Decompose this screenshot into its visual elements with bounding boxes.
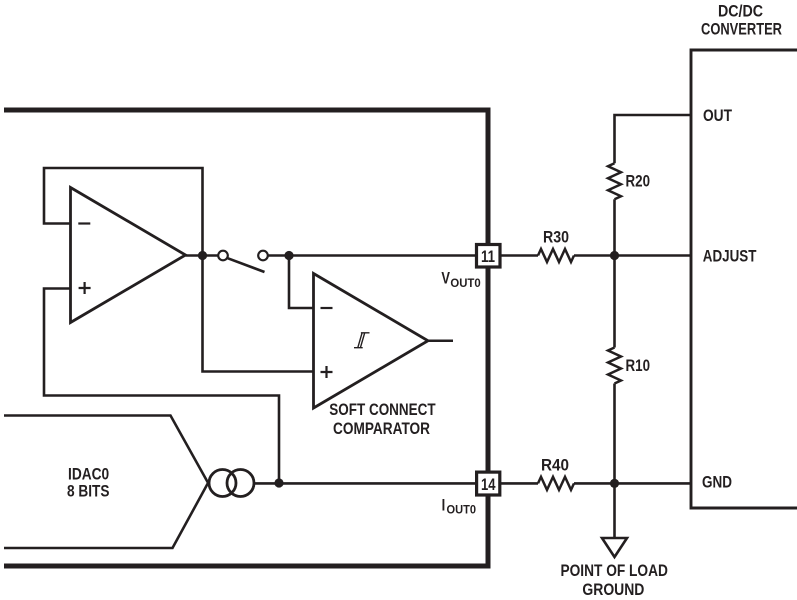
resistor R40 xyxy=(538,477,574,490)
svg-text:R30: R30 xyxy=(543,228,569,247)
label SOFT CONNECT COMPARATOR xyxy=(329,400,436,438)
switch SW (soft connect switch) xyxy=(218,251,268,272)
svg-text:DC/DC: DC/DC xyxy=(718,2,763,21)
svg-text:IDAC0: IDAC0 xyxy=(68,465,109,484)
DC/DC converter box xyxy=(691,50,797,508)
svg-text:OUT: OUT xyxy=(703,106,732,125)
wire R10 to GND node xyxy=(613,384,616,484)
svg-text:I: I xyxy=(442,495,446,514)
wire R30 to ADJUST xyxy=(574,254,691,257)
op-amp U1 feedback wire (output to inverting input) xyxy=(44,168,314,372)
svg-text:11: 11 xyxy=(481,247,495,266)
wire pin 11 to R30 xyxy=(500,254,538,257)
wire GND node to ground symbol xyxy=(613,483,616,538)
pin 14 xyxy=(477,472,500,495)
wire R40 to GND pin xyxy=(574,482,691,485)
svg-text:OUT0: OUT0 xyxy=(450,278,480,290)
comparator U2 (soft connect comparator) xyxy=(314,274,429,409)
svg-text:8 BITS: 8 BITS xyxy=(67,482,110,501)
svg-text:14: 14 xyxy=(481,475,496,494)
label DC/DC CONVERTER xyxy=(701,2,782,39)
wire ADJUST node to R10 xyxy=(613,256,616,348)
node: GND junction xyxy=(610,479,619,488)
op-amp U1 xyxy=(71,188,186,323)
device boundary (IC outline, right edge) xyxy=(4,110,488,566)
wire current source to pin 14 xyxy=(254,482,476,485)
pin 11 xyxy=(477,245,501,268)
svg-text:GROUND: GROUND xyxy=(582,580,644,599)
svg-text:ADJUST: ADJUST xyxy=(703,247,757,266)
label POINT OF LOAD GROUND xyxy=(561,561,668,599)
current source I1 (IDAC output) xyxy=(209,470,254,497)
wire switch to pin 11 xyxy=(268,254,476,257)
svg-text:V: V xyxy=(441,269,450,288)
node: ADJUST junction xyxy=(610,251,619,260)
node: IOUT0 junction xyxy=(274,478,283,487)
resistor R10 xyxy=(608,348,621,384)
label IOUT0 xyxy=(442,495,476,516)
svg-text:CONVERTER: CONVERTER xyxy=(701,20,782,39)
ground (point of load ground) xyxy=(602,538,627,557)
label VOUT0 xyxy=(441,269,480,291)
svg-text:OUT0: OUT0 xyxy=(447,505,477,517)
wire junction to comparator inverting input xyxy=(289,256,314,309)
node: op-amp output junction xyxy=(198,251,207,260)
resistor R30 xyxy=(538,249,574,262)
wire OUT to R20 xyxy=(615,115,692,163)
DAC IDAC0 symbol xyxy=(4,416,208,549)
wire R20 to ADJUST node xyxy=(613,199,616,255)
svg-text:R40: R40 xyxy=(541,456,569,475)
node: VOUT0 line junction xyxy=(284,251,293,260)
wire comparator output stub xyxy=(428,339,453,342)
wire op-amp output to switch xyxy=(186,254,219,257)
svg-text:R20: R20 xyxy=(626,172,651,191)
svg-text:COMPARATOR: COMPARATOR xyxy=(333,419,430,438)
resistor R20 xyxy=(608,163,621,199)
svg-text:SOFT CONNECT: SOFT CONNECT xyxy=(329,400,436,419)
svg-text:GND: GND xyxy=(702,473,732,492)
svg-text:R10: R10 xyxy=(626,356,651,375)
svg-text:POINT OF LOAD: POINT OF LOAD xyxy=(561,561,668,580)
wire op-amp noninverting input to IDAC output node xyxy=(44,289,279,484)
wire pin 14 to R40 xyxy=(500,482,538,485)
label IDAC0 8 BITS xyxy=(67,465,110,501)
